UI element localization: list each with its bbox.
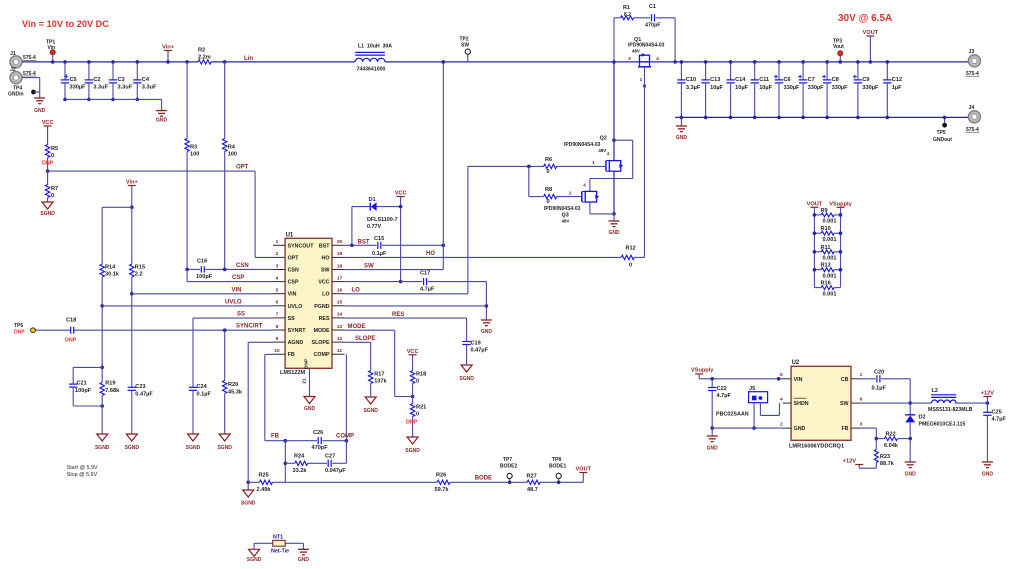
svg-text:C13: C13 <box>710 77 720 83</box>
svg-text:Vin: Vin <box>48 45 56 51</box>
svg-text:GND: GND <box>707 446 719 452</box>
svg-text:0.47µF: 0.47µF <box>135 391 153 397</box>
svg-text:VCC: VCC <box>42 120 54 126</box>
svg-text:100pF: 100pF <box>196 274 213 280</box>
svg-text:DFLS1100-7: DFLS1100-7 <box>367 217 398 223</box>
svg-text:UVLO: UVLO <box>225 299 242 305</box>
svg-text:30V @ 6.5A: 30V @ 6.5A <box>838 13 892 24</box>
svg-text:C4: C4 <box>142 77 150 83</box>
svg-text:14: 14 <box>337 312 343 318</box>
svg-text:100: 100 <box>228 152 237 158</box>
svg-text:CSP: CSP <box>232 275 244 281</box>
svg-text:16: 16 <box>337 288 343 294</box>
svg-text:SGND: SGND <box>186 445 201 451</box>
svg-text:SLOPE: SLOPE <box>312 340 330 346</box>
svg-text:7443641000: 7443641000 <box>357 67 386 73</box>
svg-text:88.7k: 88.7k <box>880 461 895 467</box>
svg-text:20: 20 <box>337 239 343 245</box>
svg-text:C2: C2 <box>93 77 100 83</box>
svg-text:U2: U2 <box>792 360 800 366</box>
svg-text:C26: C26 <box>313 430 323 436</box>
svg-text:C25: C25 <box>992 409 1002 415</box>
svg-text:100: 100 <box>190 152 199 158</box>
svg-text:GND: GND <box>676 135 688 141</box>
svg-text:1: 1 <box>860 372 863 378</box>
svg-text:CB: CB <box>841 377 849 383</box>
svg-text:8: 8 <box>276 324 279 330</box>
svg-text:AGND: AGND <box>288 340 304 346</box>
svg-text:R27: R27 <box>527 473 537 479</box>
svg-text:SGND: SGND <box>95 445 110 451</box>
svg-text:IPD90N04S4-03: IPD90N04S4-03 <box>564 142 601 148</box>
svg-text:C3: C3 <box>118 77 125 83</box>
svg-text:CSN: CSN <box>236 263 249 269</box>
svg-text:R21: R21 <box>416 405 426 411</box>
svg-text:R5: R5 <box>51 146 58 152</box>
svg-text:L2: L2 <box>932 388 939 394</box>
svg-text:TP5: TP5 <box>937 130 946 136</box>
svg-text:48V: 48V <box>562 218 570 223</box>
svg-text:0.1µF: 0.1µF <box>197 391 212 397</box>
svg-text:0.1µF: 0.1µF <box>372 251 387 257</box>
svg-text:470pF: 470pF <box>312 445 329 451</box>
svg-text:4.7µF: 4.7µF <box>992 416 1007 422</box>
svg-text:VIN: VIN <box>232 287 242 293</box>
svg-text:4: 4 <box>656 56 659 62</box>
svg-text:C21: C21 <box>77 381 87 387</box>
svg-text:BST: BST <box>358 239 370 245</box>
svg-text:33.2k: 33.2k <box>293 468 308 474</box>
svg-text:GNDout: GNDout <box>933 137 952 143</box>
svg-text:BODE2: BODE2 <box>500 464 517 470</box>
svg-text:MSS5131-823MLB: MSS5131-823MLB <box>928 407 973 413</box>
svg-text:1: 1 <box>640 77 643 83</box>
svg-text:R10: R10 <box>821 226 831 232</box>
svg-text:5: 5 <box>276 288 279 294</box>
svg-text:R3: R3 <box>190 145 197 151</box>
svg-text:TP8: TP8 <box>552 457 561 463</box>
svg-text:C19: C19 <box>471 341 481 347</box>
svg-text:C14: C14 <box>735 77 746 83</box>
svg-text:3: 3 <box>860 422 863 428</box>
svg-text:SS: SS <box>288 316 296 322</box>
svg-text:VSupply: VSupply <box>829 201 852 207</box>
svg-text:Vin+: Vin+ <box>162 45 175 51</box>
svg-text:330µF: 330µF <box>808 85 825 91</box>
svg-text:R17: R17 <box>374 372 384 378</box>
svg-text:MODE: MODE <box>348 324 366 330</box>
svg-text:330µF: 330µF <box>784 85 801 91</box>
svg-text:330µF: 330µF <box>832 85 849 91</box>
svg-text:FB: FB <box>841 426 848 432</box>
svg-text:BODE1: BODE1 <box>549 464 566 470</box>
svg-text:DNP: DNP <box>14 330 25 336</box>
svg-text:GND: GND <box>304 406 316 412</box>
svg-text:BST: BST <box>319 243 330 249</box>
svg-text:OPT: OPT <box>236 165 249 171</box>
svg-text:U1: U1 <box>286 233 294 239</box>
svg-text:6: 6 <box>276 300 279 306</box>
svg-text:3: 3 <box>276 263 279 269</box>
svg-text:SLOPE: SLOPE <box>355 336 375 342</box>
svg-text:C24: C24 <box>197 384 208 390</box>
svg-text:Stop @ 5.6V: Stop @ 5.6V <box>67 472 98 478</box>
svg-text:LMR16006YDDCRQ1: LMR16006YDDCRQ1 <box>789 444 844 450</box>
svg-text:0.001: 0.001 <box>823 274 837 280</box>
svg-text:Vin+: Vin+ <box>126 180 139 186</box>
svg-text:D1: D1 <box>369 197 376 203</box>
svg-text:0.047µF: 0.047µF <box>325 468 346 474</box>
svg-text:1µF: 1µF <box>892 85 902 91</box>
svg-text:48.7: 48.7 <box>527 487 538 493</box>
svg-text:VCC: VCC <box>318 280 329 286</box>
svg-text:R8: R8 <box>545 187 552 193</box>
svg-text:C10: C10 <box>686 77 696 83</box>
svg-text:J2: J2 <box>10 67 16 73</box>
svg-text:18: 18 <box>337 263 343 269</box>
svg-text:SYNC/RT: SYNC/RT <box>236 324 263 330</box>
svg-text:137k: 137k <box>374 379 387 385</box>
svg-text:6.04k: 6.04k <box>884 443 899 449</box>
svg-text:13: 13 <box>337 324 343 330</box>
svg-text:C1: C1 <box>649 4 656 10</box>
svg-text:SW: SW <box>840 401 849 407</box>
svg-text:C9: C9 <box>862 77 869 83</box>
svg-text:R7: R7 <box>51 186 58 192</box>
svg-text:Q2: Q2 <box>600 136 607 142</box>
svg-text:J1: J1 <box>10 51 16 57</box>
svg-text:10µF: 10µF <box>710 85 723 91</box>
svg-text:VIN: VIN <box>794 377 803 383</box>
svg-text:0: 0 <box>51 153 54 159</box>
svg-text:C5: C5 <box>70 77 77 83</box>
svg-text:R2: R2 <box>198 48 205 54</box>
svg-text:GND: GND <box>298 557 310 563</box>
svg-text:SGND: SGND <box>217 445 232 451</box>
svg-text:D2: D2 <box>919 415 926 421</box>
svg-text:SHDN: SHDN <box>794 401 809 407</box>
svg-text:VOUT: VOUT <box>863 30 879 36</box>
svg-text:SYNCOUT: SYNCOUT <box>288 243 315 249</box>
svg-text:R11: R11 <box>821 245 831 251</box>
svg-text:HO: HO <box>322 255 330 261</box>
svg-text:2.2: 2.2 <box>135 272 143 278</box>
svg-text:4: 4 <box>780 397 783 403</box>
svg-text:8.2: 8.2 <box>624 12 631 18</box>
svg-text:SGND: SGND <box>363 408 378 414</box>
svg-text:48V: 48V <box>598 148 606 153</box>
svg-text:R1: R1 <box>623 5 630 11</box>
svg-text:1: 1 <box>276 239 279 245</box>
svg-text:0.001: 0.001 <box>823 256 837 262</box>
svg-text:10µF: 10µF <box>759 85 772 91</box>
svg-text:HO: HO <box>426 251 435 257</box>
svg-text:CSP: CSP <box>288 280 299 286</box>
svg-text:VOUT: VOUT <box>576 467 592 473</box>
svg-text:PMEG6010CEJ,115: PMEG6010CEJ,115 <box>919 421 966 427</box>
svg-text:15: 15 <box>337 300 343 306</box>
svg-text:LO: LO <box>322 292 329 298</box>
svg-text:R18: R18 <box>416 372 426 378</box>
svg-text:0.1µF: 0.1µF <box>872 385 887 391</box>
svg-text:0.001: 0.001 <box>823 237 837 243</box>
svg-text:0: 0 <box>547 199 550 205</box>
svg-text:R22: R22 <box>886 431 896 437</box>
svg-text:NT1: NT1 <box>273 535 283 541</box>
svg-text:J4: J4 <box>969 105 975 111</box>
svg-text:J3: J3 <box>969 49 975 55</box>
svg-text:19: 19 <box>337 251 343 257</box>
svg-text:DNP: DNP <box>406 420 418 426</box>
svg-text:R12: R12 <box>626 246 636 252</box>
svg-text:9: 9 <box>276 336 279 342</box>
svg-text:TP6: TP6 <box>14 323 23 329</box>
svg-text:R20: R20 <box>228 382 238 388</box>
svg-text:SW: SW <box>321 268 330 274</box>
svg-text:GND: GND <box>608 230 620 236</box>
svg-text:PGND: PGND <box>314 304 329 310</box>
svg-text:UVLO: UVLO <box>288 304 303 310</box>
svg-text:C11: C11 <box>759 77 769 83</box>
svg-text:SGND: SGND <box>459 376 474 382</box>
svg-text:VOUT: VOUT <box>807 201 823 207</box>
svg-text:R19: R19 <box>105 381 115 387</box>
svg-text:0: 0 <box>51 193 54 199</box>
svg-text:R4: R4 <box>228 145 236 151</box>
svg-text:C17: C17 <box>420 271 430 277</box>
svg-text:R23: R23 <box>880 454 890 460</box>
svg-text:LO: LO <box>352 288 361 294</box>
svg-text:R25: R25 <box>259 472 269 478</box>
svg-text:12: 12 <box>337 336 343 342</box>
svg-text:0.001: 0.001 <box>823 291 837 297</box>
svg-text:2: 2 <box>780 422 783 428</box>
svg-text:11: 11 <box>337 348 342 354</box>
svg-text:2.49k: 2.49k <box>257 487 272 493</box>
svg-text:VIN: VIN <box>288 292 297 298</box>
svg-text:4: 4 <box>276 275 279 281</box>
svg-text:SGND: SGND <box>125 445 140 451</box>
svg-text:10µF: 10µF <box>735 85 748 91</box>
svg-text:0: 0 <box>416 412 419 418</box>
svg-text:CSN: CSN <box>288 268 299 274</box>
svg-text:330µF: 330µF <box>70 85 87 91</box>
svg-text:5: 5 <box>780 372 783 378</box>
svg-text:30.1k: 30.1k <box>105 272 120 278</box>
svg-text:DNP: DNP <box>65 338 77 344</box>
svg-text:1: 1 <box>592 160 595 166</box>
svg-text:SGND: SGND <box>247 557 262 563</box>
svg-text:100pF: 100pF <box>75 388 92 394</box>
svg-text:SW: SW <box>461 43 469 49</box>
svg-text:COMP: COMP <box>314 352 330 358</box>
svg-text:RES: RES <box>319 316 330 322</box>
svg-text:SGND: SGND <box>405 448 420 454</box>
svg-text:21: 21 <box>302 378 308 384</box>
svg-text:0.001: 0.001 <box>823 219 837 225</box>
svg-text:330µF: 330µF <box>862 85 879 91</box>
svg-text:GND: GND <box>481 329 493 335</box>
svg-text:C27: C27 <box>325 453 335 459</box>
svg-text:LM5122M: LM5122M <box>280 370 306 376</box>
svg-text:4.7µF: 4.7µF <box>420 286 435 292</box>
svg-text:Vin = 10V to 20V DC: Vin = 10V to 20V DC <box>22 19 109 29</box>
svg-text:0: 0 <box>547 169 550 175</box>
svg-text:SW: SW <box>364 263 374 269</box>
svg-text:45.3k: 45.3k <box>228 389 243 395</box>
svg-text:C18: C18 <box>66 318 76 324</box>
svg-text:10: 10 <box>274 348 280 354</box>
svg-text:R9: R9 <box>821 208 828 214</box>
svg-text:RES: RES <box>392 312 404 318</box>
svg-text:3.3µF: 3.3µF <box>686 85 701 91</box>
svg-text:2.2m: 2.2m <box>198 55 211 61</box>
svg-text:R15: R15 <box>135 265 145 271</box>
svg-text:VSupply: VSupply <box>691 368 714 374</box>
svg-text:R14: R14 <box>105 265 116 271</box>
svg-text:SGND: SGND <box>241 501 256 507</box>
svg-text:GND: GND <box>156 118 168 124</box>
svg-text:7: 7 <box>276 312 279 318</box>
svg-text:BODE: BODE <box>475 475 492 481</box>
svg-text:VCC: VCC <box>395 191 407 197</box>
svg-text:+12V: +12V <box>843 459 856 465</box>
svg-text:R26: R26 <box>436 472 446 478</box>
svg-text:470pF: 470pF <box>645 23 661 29</box>
svg-text:C7: C7 <box>808 77 815 83</box>
svg-text:C16: C16 <box>197 259 207 265</box>
svg-text:GNDin: GNDin <box>8 92 24 98</box>
svg-text:PBC02SAAN: PBC02SAAN <box>716 412 749 418</box>
svg-text:17: 17 <box>337 275 343 281</box>
svg-text:GND: GND <box>905 472 917 478</box>
svg-text:VCC: VCC <box>407 349 419 355</box>
svg-text:MODE: MODE <box>314 328 330 334</box>
svg-text:FB: FB <box>288 352 295 358</box>
svg-text:COMP: COMP <box>336 434 354 440</box>
svg-text:C6: C6 <box>784 77 791 83</box>
svg-text:C8: C8 <box>832 77 839 83</box>
svg-text:R24: R24 <box>294 453 305 459</box>
svg-text:0: 0 <box>629 263 632 269</box>
svg-text:0.77V: 0.77V <box>367 224 381 230</box>
svg-text:C22: C22 <box>717 386 727 392</box>
svg-text:3.3uF: 3.3uF <box>118 85 133 91</box>
svg-text:4.7µF: 4.7µF <box>717 393 732 399</box>
svg-text:2: 2 <box>276 251 279 257</box>
svg-text:+12V: +12V <box>981 391 994 397</box>
svg-text:R6: R6 <box>545 157 552 163</box>
svg-text:IPD90N04S4-03: IPD90N04S4-03 <box>544 206 581 212</box>
svg-text:SS: SS <box>237 312 245 318</box>
svg-text:Start @ 5.9V: Start @ 5.9V <box>67 465 98 471</box>
svg-text:C20: C20 <box>874 369 884 375</box>
svg-text:7.68k: 7.68k <box>105 388 120 394</box>
svg-text:J5: J5 <box>749 386 755 392</box>
svg-text:DNP: DNP <box>304 358 310 369</box>
svg-text:3.3uF: 3.3uF <box>142 85 157 91</box>
svg-text:SGND: SGND <box>40 211 55 217</box>
svg-text:SYNRT: SYNRT <box>288 328 307 334</box>
svg-text:Net-Tie: Net-Tie <box>271 549 289 555</box>
svg-text:3.3uF: 3.3uF <box>93 85 108 91</box>
svg-text:R16: R16 <box>821 281 831 287</box>
svg-text:GND: GND <box>34 108 46 114</box>
svg-text:0: 0 <box>416 379 419 385</box>
svg-text:L1 10uH 30A: L1 10uH 30A <box>358 44 392 50</box>
svg-text:TP7: TP7 <box>503 457 512 463</box>
svg-text:48V: 48V <box>632 48 640 53</box>
svg-text:0.47µF: 0.47µF <box>471 348 489 354</box>
svg-text:GND: GND <box>982 472 994 478</box>
svg-text:OPT: OPT <box>288 255 300 261</box>
svg-text:Lin: Lin <box>244 56 253 62</box>
svg-text:GND: GND <box>794 426 806 432</box>
svg-text:59.7k: 59.7k <box>435 487 450 493</box>
svg-text:6: 6 <box>860 397 863 403</box>
svg-text:FB: FB <box>271 434 280 440</box>
svg-text:C23: C23 <box>135 384 145 390</box>
svg-text:C15: C15 <box>374 236 384 242</box>
svg-text:DNP: DNP <box>42 161 54 167</box>
svg-text:3: 3 <box>628 56 631 62</box>
svg-text:Vout: Vout <box>833 44 844 50</box>
svg-text:1: 1 <box>569 190 572 196</box>
svg-text:R13: R13 <box>821 263 831 269</box>
svg-text:C12: C12 <box>892 77 902 83</box>
